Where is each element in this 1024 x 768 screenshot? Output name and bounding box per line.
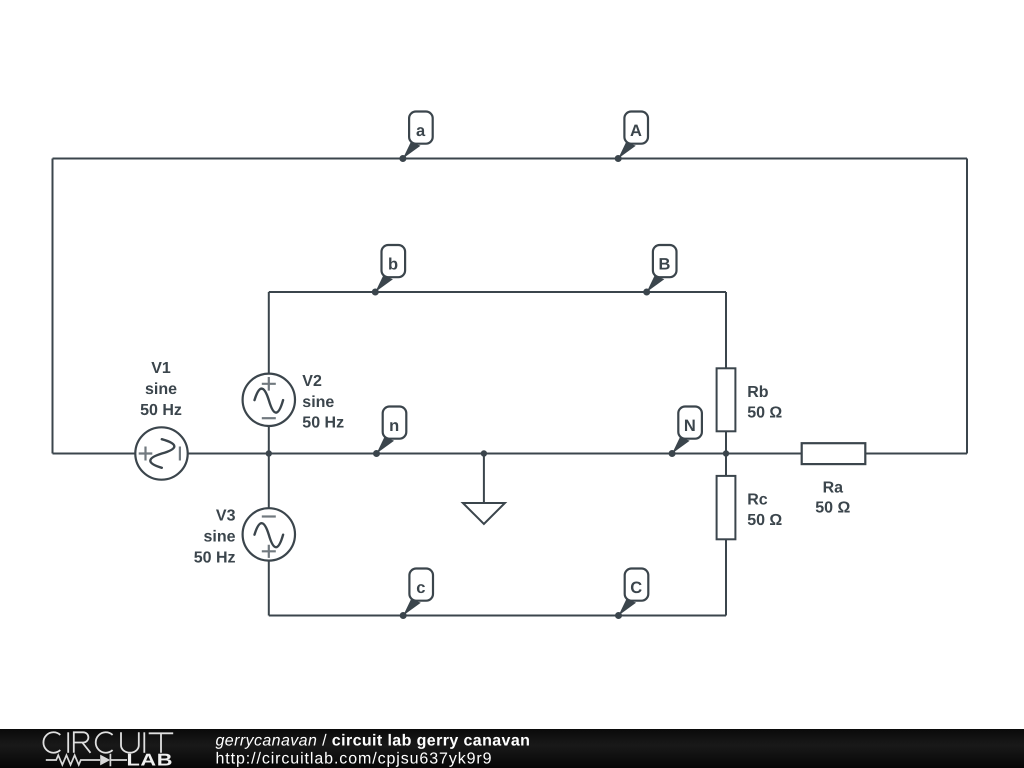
svg-text:Ra: Ra: [823, 479, 844, 496]
wire Rc column: [725, 454, 727, 616]
wire b bus: [269, 291, 726, 293]
svg-text:Rb: Rb: [747, 384, 769, 401]
wire main horizontal neutral bus: [53, 453, 802, 455]
svg-text:N: N: [684, 417, 696, 435]
svg-text:B: B: [658, 256, 670, 274]
svg-text:sine: sine: [203, 529, 235, 546]
label Rb value: [747, 384, 782, 422]
svg-text:V3: V3: [216, 508, 236, 525]
resistor Rc: [717, 476, 736, 539]
svg-text:50 Hz: 50 Hz: [140, 402, 182, 419]
svg-text:LAB: LAB: [127, 750, 174, 768]
svg-text:Rc: Rc: [747, 492, 768, 509]
node N: [669, 407, 702, 458]
svg-text:V2: V2: [302, 373, 322, 390]
voltage source V3: [243, 508, 295, 560]
svg-text:gerrycanavan / circuit lab ger: gerrycanavan / circuit lab gerry canavan: [216, 733, 531, 750]
node A: [615, 112, 648, 163]
wire left vertical: [52, 159, 54, 454]
node n: [373, 407, 406, 458]
label V2 value: [302, 373, 344, 432]
node a: [399, 112, 432, 163]
footer logo CIRCUIT: [43, 732, 173, 753]
wire top bus a-A: [53, 158, 968, 160]
node C: [615, 569, 648, 620]
ground: [463, 454, 505, 525]
svg-text:sine: sine: [302, 394, 334, 411]
footer bar: [0, 729, 1024, 768]
wire V3 column: [268, 454, 270, 616]
label V1 value: [140, 360, 182, 419]
resistor Ra: [802, 443, 866, 464]
footer logo resistor and diode: [46, 754, 127, 766]
svg-text:a: a: [416, 122, 426, 140]
svg-text:50 Ω: 50 Ω: [747, 512, 782, 529]
wire V2 column: [268, 292, 270, 454]
junction dot Rb Rc Ra: [723, 450, 729, 456]
wire right vertical: [966, 159, 968, 454]
wire Rb column: [725, 292, 727, 454]
wire c bus: [269, 615, 726, 617]
svg-text:b: b: [388, 256, 398, 274]
resistor Rb: [717, 368, 736, 431]
svg-text:50 Hz: 50 Hz: [302, 415, 344, 432]
svg-text:A: A: [630, 122, 642, 140]
label V3 value: [194, 508, 236, 567]
svg-text:50 Hz: 50 Hz: [194, 550, 236, 567]
label Ra value: [815, 479, 850, 516]
svg-text:50 Ω: 50 Ω: [747, 405, 782, 422]
node b: [372, 245, 405, 296]
svg-text:V1: V1: [151, 360, 171, 377]
svg-text:50 Ω: 50 Ω: [815, 500, 850, 517]
svg-text:C: C: [630, 579, 642, 597]
voltage source V2: [243, 374, 295, 426]
voltage source V1: [135, 427, 187, 479]
junction dot ground: [481, 450, 487, 456]
node c: [400, 569, 433, 620]
svg-text:sine: sine: [145, 381, 177, 398]
label Rc value: [747, 492, 782, 530]
node B: [643, 245, 676, 296]
junction dot V2 V3 neutral: [266, 450, 272, 456]
svg-text:n: n: [389, 417, 399, 435]
wire Ra right to vertical: [866, 453, 968, 455]
svg-text:http://circuitlab.com/cpjsu637: http://circuitlab.com/cpjsu637yk9r9: [216, 751, 493, 768]
svg-text:c: c: [416, 579, 425, 597]
